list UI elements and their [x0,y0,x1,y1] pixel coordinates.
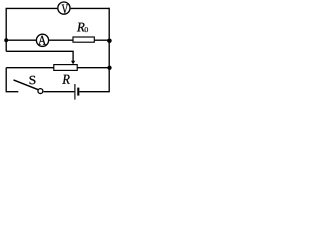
label S [30,76,36,84]
node right junction upper [107,39,112,44]
wire top-left segment [6,7,57,9]
switch S contact circle [38,89,43,94]
wire wiper feed [6,51,73,61]
wire left column upper [5,8,7,52]
wire rheostat row left [6,67,54,69]
wire bottom-right segment [79,91,109,93]
wire bottom middle segment [44,91,75,93]
node left junction [4,38,8,42]
ammeter A1 [36,34,48,46]
switch S lever [14,80,39,90]
battery cell negative plate (short thick) [77,88,79,96]
node right junction lower [107,66,111,70]
wire right column [108,8,110,93]
wire left column lower [5,68,7,92]
wire ammeter row middle [49,39,73,41]
wire ammeter row right [95,39,110,41]
label R0 [77,23,88,32]
resistor R0 [73,37,94,42]
voltmeter V1 [58,2,70,14]
label R [62,75,69,84]
wire rheostat row right [78,67,110,69]
wire bottom-left segment [6,91,19,93]
battery cell positive plate (long) [74,84,76,100]
rheostat R (box) [54,65,77,71]
wire ammeter row left [6,39,36,41]
wire top-right segment [71,7,110,9]
rheostat wiper arrowhead [71,61,75,65]
